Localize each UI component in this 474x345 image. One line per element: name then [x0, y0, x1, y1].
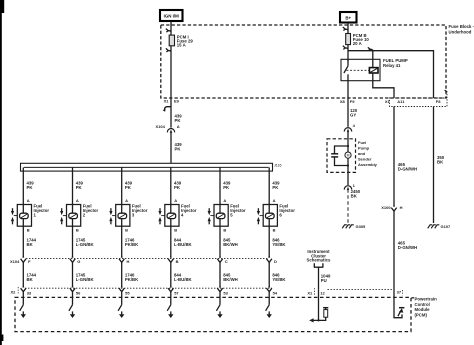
svg-text:Powertrain: Powertrain: [415, 297, 438, 302]
svg-text:53: 53: [223, 291, 228, 296]
svg-text:Schematics: Schematics: [307, 258, 331, 263]
svg-text:BK: BK: [27, 277, 34, 282]
svg-text:G107: G107: [441, 224, 452, 229]
svg-text:B: B: [174, 228, 177, 233]
injector 2 valve arrows: [60, 208, 66, 224]
wire relay switch to X8 F9: [347, 81, 349, 98]
svg-text:B: B: [223, 228, 226, 233]
wire 1744 BK (X104 to X2): [22, 262, 24, 287]
svg-text:PK: PK: [125, 185, 132, 190]
svg-text:J116: J116: [274, 164, 282, 168]
inline connector X2 pin 56: [70, 285, 81, 296]
inline connector X2 pin 55: [119, 285, 130, 296]
svg-text:PK: PK: [76, 185, 83, 190]
label 1746 PK/BK: [125, 272, 139, 282]
label PCM I Fuse 29 15 A: [177, 34, 194, 47]
svg-text:H: H: [400, 205, 403, 210]
svg-text:37: 37: [397, 290, 402, 295]
wire 439 PK drop to injector 6: [268, 167, 270, 226]
svg-text:Underhood: Underhood: [449, 29, 472, 34]
label 439 PK: [175, 113, 183, 123]
svg-text:Sender: Sender: [358, 157, 372, 162]
wire 439 PK drop to injector 4: [170, 167, 172, 226]
wire 1745 L-GN/BK (X104 to X2): [72, 262, 74, 287]
label Fuel Injector 4: [181, 204, 197, 218]
ground G305: [342, 224, 366, 229]
wire 1744 BK (injector 1 to X104): [22, 227, 24, 258]
wire 1746 PK/BK (injector 3 to X104): [121, 227, 123, 258]
svg-text:PU: PU: [321, 278, 327, 283]
PCM low-side driver for injector 6: [266, 305, 272, 318]
svg-text:L-GN/BK: L-GN/BK: [76, 242, 95, 247]
svg-text:B: B: [27, 228, 30, 233]
svg-text:YE/BK: YE/BK: [272, 242, 286, 247]
label 439 PK (injector 5): [223, 180, 231, 190]
svg-text:X2: X2: [11, 290, 17, 295]
svg-text:YE/BK: YE/BK: [272, 277, 286, 282]
wire 846 YE/BK (X104 to X2): [268, 262, 270, 287]
wire 844 L-BU/BK (injector 4 to X104): [170, 227, 172, 258]
label 439 PK (injector 4): [174, 180, 182, 190]
injector 3 valve arrows: [109, 208, 115, 224]
svg-text:PK: PK: [175, 118, 182, 123]
connector X104 dotted row: [10, 259, 268, 264]
injector 5 valve arrows: [208, 208, 214, 224]
label Powertrain Control Module (PCM): [412, 297, 438, 318]
label 1744 BK: [27, 237, 37, 247]
svg-text:L-BU/BK: L-BU/BK: [174, 242, 193, 247]
svg-text:D: D: [274, 259, 277, 264]
fuel injector 2: [67, 205, 81, 227]
svg-text:L-BU/BK: L-BU/BK: [174, 277, 193, 282]
svg-text:G305: G305: [356, 224, 367, 229]
inline connector X104 pin B: [168, 255, 179, 265]
PCM internal pull-up resistor and signal arrow: [309, 308, 328, 323]
svg-text:X100: X100: [381, 205, 391, 210]
label Fuel Injector 1: [34, 204, 50, 218]
wire into PCM driver 3: [121, 292, 123, 305]
fuel injector 6: [263, 205, 277, 227]
fuse clip terminal (top of Fuse 10): [343, 27, 348, 31]
off-page reference Instrument Cluster Schematics: [307, 249, 331, 267]
svg-text:A: A: [125, 198, 128, 203]
page left border artifact: [0, 0, 2, 345]
fuse clip terminal (bottom of Fuse 29): [166, 48, 171, 52]
svg-text:Module: Module: [415, 307, 431, 312]
svg-text:PK: PK: [27, 185, 34, 190]
svg-text:BK/WH: BK/WH: [223, 242, 238, 247]
terminal hook on branch: [368, 47, 373, 50]
suppression capacitor branch: [331, 145, 349, 167]
svg-text:54: 54: [273, 291, 278, 296]
svg-text:B+: B+: [345, 15, 351, 20]
svg-text:PK/BK: PK/BK: [125, 242, 139, 247]
inline connector X104 pin C: [217, 255, 228, 265]
svg-text:G: G: [77, 259, 80, 264]
injector 4 valve arrows: [158, 208, 164, 224]
inline connector X2 pin 54: [267, 285, 278, 296]
inline connector X104 pin D: [267, 255, 278, 265]
wire into fuel pump: [347, 132, 349, 173]
pin 37 of PCM: [397, 290, 403, 296]
PCM low-side driver for injector 1: [20, 305, 26, 318]
wire 439 PK (fuse block to X104): [170, 98, 172, 128]
label 439 PK (injector 1): [27, 180, 35, 190]
svg-text:A11: A11: [397, 99, 405, 104]
svg-text:Control: Control: [415, 302, 430, 307]
svg-text:X1: X1: [164, 99, 170, 104]
wire pin 12 into PCM: [318, 289, 320, 320]
injector 1 valve arrows: [11, 208, 17, 224]
svg-text:X1: X1: [307, 291, 313, 296]
svg-text:and: and: [358, 151, 366, 156]
powertrain control module (dashed outline): [15, 297, 411, 331]
svg-text:Relay 41: Relay 41: [383, 63, 401, 68]
svg-text:A: A: [223, 198, 226, 203]
svg-text:PK: PK: [175, 147, 182, 152]
wire 465 D-GN/WH (A11 to X100): [393, 107, 395, 207]
wire 1745 L-GN/BK (injector 2 to X104): [72, 227, 74, 258]
label PCM B Fuse 10 20 A: [353, 33, 370, 46]
wire into PCM driver 2: [72, 292, 74, 305]
svg-text:12: 12: [320, 291, 325, 296]
svg-text:A: A: [177, 124, 180, 129]
svg-text:(PCM): (PCM): [415, 313, 428, 318]
label 1744 BK: [27, 272, 37, 282]
svg-text:C: C: [225, 259, 228, 264]
fuel injector 1: [17, 205, 31, 227]
wire into PCM driver 1: [22, 292, 24, 305]
fuse PCM I Fuse 29 15A: [169, 35, 174, 46]
inline connector X100 pin H: [381, 204, 402, 212]
svg-text:X104: X104: [155, 124, 165, 129]
wire B+ to fuse 10: [347, 23, 349, 62]
PCM low-side driver for injector 4: [167, 305, 173, 318]
label 2450 BK: [351, 189, 361, 199]
wire 120 GY: [347, 98, 349, 127]
svg-text:H: H: [127, 259, 130, 264]
inline connector X2 pin 57: [168, 285, 179, 296]
fuel pump motor: [345, 152, 351, 158]
inline connector X2 pin 33: [21, 285, 32, 296]
svg-text:A: A: [174, 198, 177, 203]
wire 439 PK (X104 to splice bar): [170, 132, 172, 163]
svg-text:A: A: [76, 198, 79, 203]
fuel injector 4: [165, 205, 179, 227]
inline connector X104 pin A: [155, 124, 179, 133]
PCM low-side driver for injector 3: [118, 305, 124, 318]
splice bus bar J116: [21, 163, 273, 171]
svg-text:B: B: [176, 259, 179, 264]
fuse block underhood (dashed outline): [161, 25, 446, 98]
label Fuel Injector 6: [279, 204, 295, 218]
label 1745 L-GN/BK: [76, 237, 95, 247]
dashed wire to ground: [347, 189, 349, 223]
svg-text:X8: X8: [340, 99, 346, 104]
wire 846 YE/BK (injector 6 to X104): [268, 227, 270, 258]
wire 439 PK drop to injector 2: [72, 167, 74, 226]
label 1746 PK/BK: [125, 237, 139, 247]
svg-text:PK: PK: [272, 185, 279, 190]
wire 465 D-GN/WH (X100 to PCM): [393, 211, 395, 297]
label Fuel Injector 3: [132, 204, 148, 218]
wire 1049 PU: [318, 267, 320, 289]
wire relay coil to A11: [373, 73, 394, 98]
wire 439 PK drop to injector 1: [22, 167, 24, 226]
connector X2 dotted row: [11, 287, 273, 295]
inline connector pin 4 (fuel pump): [344, 123, 355, 132]
svg-text:57: 57: [174, 291, 179, 296]
svg-text:D-GN/WH: D-GN/WH: [398, 245, 417, 250]
connector X1 pin E9: [163, 99, 180, 112]
svg-text:X104: X104: [10, 259, 20, 264]
inline connector X104 pin F: [21, 255, 32, 265]
inline connector X104 pin G: [70, 255, 81, 265]
label 846 YE/BK: [272, 272, 286, 282]
svg-text:A: A: [27, 198, 30, 203]
svg-text:GY: GY: [350, 113, 356, 118]
connector X1 dotted row (PCM): [307, 288, 392, 295]
label 439 PK (injector 3): [125, 180, 133, 190]
svg-text:Assembly: Assembly: [358, 162, 378, 167]
connector X8 pin F9: [340, 99, 355, 104]
svg-text:Pump: Pump: [358, 146, 370, 151]
ground G107: [428, 224, 451, 229]
svg-text:BK: BK: [27, 242, 34, 247]
svg-text:20 A: 20 A: [353, 41, 362, 46]
svg-text:M: M: [347, 154, 350, 158]
injector 6 valve arrows: [257, 208, 263, 224]
label Fuse Block Underhood: [449, 24, 474, 34]
PCM fuel pump relay driver: [394, 297, 404, 317]
fuel injector 5: [214, 205, 228, 227]
label 465 D-GN/WH: [398, 162, 417, 172]
svg-text:55: 55: [125, 291, 130, 296]
label 845 BK/WH: [223, 272, 238, 282]
svg-text:B: B: [273, 228, 276, 233]
label FUEL PUMP Relay 41: [383, 58, 408, 68]
svg-text:B: B: [76, 228, 79, 233]
svg-text:L-GN/BK: L-GN/BK: [76, 277, 95, 282]
svg-text:A: A: [273, 198, 276, 203]
PCM low-side driver for injector 5: [216, 305, 222, 318]
svg-text:B: B: [125, 228, 128, 233]
wire 844 L-BU/BK (X104 to X2): [170, 262, 172, 287]
svg-text:15 A: 15 A: [177, 43, 186, 48]
wire 350 BK (F8 to G107): [433, 107, 435, 224]
inline connector X2 pin 53: [217, 285, 228, 296]
svg-text:BK/WH: BK/WH: [223, 277, 238, 282]
svg-text:D-GN/WH: D-GN/WH: [398, 166, 417, 171]
label 844 L-BU/BK: [174, 237, 193, 247]
fuse PCM B Fuse 10 20A: [346, 34, 351, 45]
wire 439 PK drop to injector 5: [219, 167, 221, 226]
svg-text:IGN I/M: IGN I/M: [164, 14, 179, 19]
wire fuse 10 output branch to relay coil and F8: [348, 51, 434, 98]
power feed box IGN I/M: [160, 10, 183, 21]
label 350 BK: [437, 155, 445, 165]
svg-text:F8: F8: [436, 99, 441, 104]
wire 2450 BK: [347, 172, 349, 185]
label 845 BK/WH: [223, 237, 238, 247]
label Fuel Injector 5: [230, 204, 246, 218]
svg-text:PK: PK: [174, 185, 181, 190]
wire 1746 PK/BK (X104 to X2): [121, 262, 123, 287]
wire branch down to relay coil: [372, 51, 374, 68]
label 1049 PU: [321, 274, 331, 284]
label 120 GY: [350, 108, 358, 118]
fuse clip terminal (bottom of Fuse 10): [343, 46, 348, 50]
label 1745 L-GN/BK: [76, 272, 95, 282]
fuel injector 3: [116, 205, 130, 227]
wire into PCM driver 5: [219, 292, 221, 305]
wire 845 BK/WH (X104 to X2): [219, 262, 221, 287]
power feed box B+: [340, 12, 357, 23]
fuse clip terminal (top of Fuse 29): [166, 29, 171, 33]
svg-text:Fuel: Fuel: [358, 140, 366, 145]
label 439 PK (injector 2): [76, 180, 84, 190]
PCM low-side driver for injector 2: [69, 305, 75, 318]
wire into PCM driver 4: [170, 292, 172, 305]
wire 439 PK drop to injector 3: [121, 167, 123, 226]
svg-text:33: 33: [27, 291, 32, 296]
label 844 L-BU/BK: [174, 272, 193, 282]
label 846 YE/BK: [272, 237, 286, 247]
label 439 PK: [175, 142, 183, 152]
wire into PCM driver 6: [268, 292, 270, 305]
inline connector pin 1 (fuel pump return): [344, 183, 355, 190]
label 439 PK (injector 6): [272, 180, 280, 190]
inline connector X104 pin H: [119, 255, 130, 265]
connector X1 pin A11: [385, 99, 405, 104]
label Fuel Injector 2: [83, 204, 99, 218]
wire 845 BK/WH (injector 5 to X104): [219, 227, 221, 258]
terminal F8: [390, 90, 448, 106]
label 465 D-GN/WH: [398, 240, 417, 250]
wire IGN feed to fuse 29: [170, 22, 172, 99]
fuel pump and sender assembly (dashed box): [327, 139, 356, 173]
label Fuel Pump and Sender Assembly: [358, 140, 378, 167]
svg-text:F9: F9: [350, 99, 355, 104]
svg-text:PK/BK: PK/BK: [125, 277, 139, 282]
svg-text:BK: BK: [351, 194, 358, 199]
svg-text:BK: BK: [437, 159, 444, 164]
svg-text:E9: E9: [174, 99, 180, 104]
svg-text:PK: PK: [223, 185, 230, 190]
svg-text:56: 56: [76, 291, 81, 296]
fuel pump relay 41: [341, 59, 380, 80]
